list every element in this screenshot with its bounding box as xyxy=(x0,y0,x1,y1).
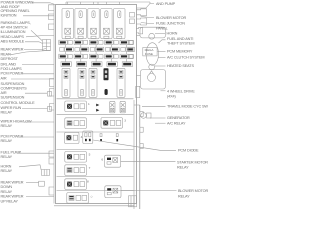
arrow mark 1 xyxy=(96,104,99,107)
fuse B5 xyxy=(126,47,134,51)
relay ac body xyxy=(101,118,123,129)
relay ac pin 1 xyxy=(110,120,115,125)
wire air pump xyxy=(137,4,155,9)
relay wiper-run pin 2 xyxy=(80,104,85,109)
relay starter-motor coil cross xyxy=(113,158,118,163)
svg-text:DRL AND: DRL AND xyxy=(1,63,17,67)
relay K3 body xyxy=(88,9,99,39)
mini relay P1 slot xyxy=(111,108,114,111)
tiny pin a xyxy=(100,134,102,137)
shelf divider 3 xyxy=(57,131,134,133)
maxi fuse MF4 slot 1 xyxy=(105,70,107,73)
shelf divider 5 xyxy=(57,175,134,177)
relay starter-motor dash 2 xyxy=(107,162,111,164)
fuse B6 xyxy=(128,47,133,51)
connector block abs inner lines xyxy=(43,40,51,51)
relay fuel-pump pin 1 xyxy=(74,154,79,159)
relay blower-motor coil xyxy=(113,188,118,193)
svg-text:TRAVEL MODE CYC SW: TRAVEL MODE CYC SW xyxy=(167,105,208,109)
maxi fuse MF3 slot 1 xyxy=(91,70,95,73)
fuse A4 spare xyxy=(114,41,118,45)
right edge tab mid xyxy=(136,86,140,97)
wire ac clutch xyxy=(159,57,166,59)
fuse box outline xyxy=(56,5,137,204)
rail tab 3 xyxy=(140,144,143,149)
bottom right connector xyxy=(129,196,137,207)
svg-text:AND PUMP: AND PUMP xyxy=(156,2,176,6)
wire box to mega xyxy=(137,35,141,37)
relay K4 body xyxy=(101,9,112,39)
relay K4 pill slot xyxy=(105,13,107,16)
relay K1 pill slot xyxy=(67,13,69,16)
relay wiper-hi-lo element stripes xyxy=(67,121,71,124)
wire fuel pump relay xyxy=(17,152,54,154)
relay horn element xyxy=(67,168,72,173)
svg-text:A/C CLUTCH SYSTEM: A/C CLUTCH SYSTEM xyxy=(167,56,204,60)
relay starter-motor dash 1 xyxy=(107,158,111,160)
svg-text:ABS MODULE: ABS MODULE xyxy=(1,40,25,44)
relay wiper-run pin 1 xyxy=(74,104,79,109)
fuse A1 element xyxy=(60,41,66,43)
svg-text:GENERATOR: GENERATOR xyxy=(167,116,190,120)
tiny dot b xyxy=(116,139,118,141)
relay K3 coil cross xyxy=(91,28,97,34)
svg-text:HEAD LAMPS: HEAD LAMPS xyxy=(1,35,25,39)
relay ac element cross xyxy=(103,120,108,125)
fuse box bottom double edge xyxy=(54,205,134,207)
interior tab B xyxy=(130,19,135,24)
relay rear-wiper-down body xyxy=(65,179,87,190)
mini relay P1 body xyxy=(110,101,115,113)
arrow mark 2 xyxy=(96,109,99,112)
mini relay P2 slot xyxy=(121,108,124,111)
fuse C2 xyxy=(74,54,82,58)
connector block abs xyxy=(43,40,51,51)
fuse A5 element xyxy=(121,41,127,43)
fuse C4 spare xyxy=(114,55,118,59)
fuse D2 xyxy=(76,62,86,67)
fuse B5 spare xyxy=(121,48,125,52)
svg-text:PCM POWER: PCM POWER xyxy=(1,72,24,76)
fuse B3 spare xyxy=(90,48,94,52)
wire relay K4 feed xyxy=(105,2,107,5)
wire air suspension components xyxy=(11,78,54,80)
svg-text:PARKING LAMPS,: PARKING LAMPS, xyxy=(1,21,31,25)
fuse B4 xyxy=(111,47,119,51)
relay wiper-hi-lo pin 1 xyxy=(74,121,79,126)
fuse D5 element xyxy=(123,63,131,66)
svg-text:STARTER MOTOR: STARTER MOTOR xyxy=(177,161,208,165)
mini relay P1 cross xyxy=(110,103,114,107)
connector bracket air suspension xyxy=(48,92,52,97)
fuse C5 element xyxy=(121,55,127,57)
relay horn pin 1 xyxy=(74,168,79,173)
fuse A3 xyxy=(89,40,97,44)
connector bracket rear wiper down xyxy=(39,181,45,186)
wire wiper run relay xyxy=(22,108,48,110)
maxi fuse MF2 pill xyxy=(80,89,83,96)
svg-text:REAR WIPER: REAR WIPER xyxy=(1,181,24,185)
relay rear-wiper-up pin 1 xyxy=(76,195,81,200)
relay K5 body xyxy=(114,9,125,39)
fuse D1 element xyxy=(62,63,70,66)
wire rear wiper up relay xyxy=(26,196,54,198)
relay K2 pill terminal xyxy=(79,11,82,18)
relay pcm-power body xyxy=(65,133,80,144)
svg-text:AIR: AIR xyxy=(1,77,7,81)
relay K4 coil cross xyxy=(104,28,110,34)
svg-text:(4X4): (4X4) xyxy=(167,94,177,98)
interior tab A xyxy=(130,13,135,18)
rail inner line xyxy=(133,100,135,209)
wire fuse junction panel xyxy=(141,23,154,24)
shelf divider 1 xyxy=(57,98,134,100)
relay K2 coil box xyxy=(78,28,84,34)
relay starter-motor coil xyxy=(113,158,118,163)
svg-text:ILLUMINATION: ILLUMINATION xyxy=(1,30,26,34)
wire pcm power relay xyxy=(20,136,54,138)
svg-text:AIR: AIR xyxy=(1,91,7,95)
maxi fuse MF2 body xyxy=(78,68,86,97)
relay rear-wiper-down element cross xyxy=(67,182,72,187)
svg-text:FUSE JUNCTION: FUSE JUNCTION xyxy=(156,22,185,26)
wire blower motor relay xyxy=(121,190,177,192)
svg-text:CONTROL MODULE: CONTROL MODULE xyxy=(1,101,36,105)
wire relay K1 feed xyxy=(67,2,69,5)
relay K5 pill slot xyxy=(118,13,120,16)
relay horn body xyxy=(65,165,87,176)
connector bracket wiper run xyxy=(48,107,52,112)
rail cap xyxy=(134,104,140,106)
fuse box left double edge xyxy=(53,5,55,204)
generator terminal xyxy=(141,113,147,119)
relay horn element stripes xyxy=(67,168,71,171)
wire rear defrost xyxy=(10,50,51,55)
relay K2 coil cross xyxy=(78,28,84,34)
connector tab top2 xyxy=(49,14,55,20)
relay blower-motor body xyxy=(105,186,121,198)
fuse A6 xyxy=(128,40,133,44)
fuse C4 element xyxy=(106,55,112,57)
svg-text:IGNITION: IGNITION xyxy=(1,14,17,18)
fuse B1 spare xyxy=(60,48,64,52)
maxi fuse MF2 slot 2 xyxy=(80,75,84,78)
fuse A2 spare xyxy=(83,41,87,45)
svg-text:PANEL: PANEL xyxy=(156,27,168,31)
generator terminal tab xyxy=(147,113,152,118)
relay K1 coil cross xyxy=(65,28,71,34)
fuse B1 element xyxy=(66,48,72,50)
relay K5 pill terminal xyxy=(118,11,121,18)
fuse D3 xyxy=(92,62,102,67)
fuse A5 spare xyxy=(129,41,133,45)
maxi fuse MF1 pill slot xyxy=(65,91,67,94)
relay K5 pin xyxy=(117,36,122,38)
mega fuse body xyxy=(146,43,158,66)
fuse A3 spare xyxy=(99,41,103,45)
relay wiper-run element cross xyxy=(67,104,72,109)
wire rear wiper xyxy=(24,49,46,50)
maxi fuse MF5 pill slot xyxy=(120,91,122,94)
fuse A4 element xyxy=(106,41,112,43)
relay fuel-pump element xyxy=(67,154,72,159)
wire travel mode xyxy=(142,105,166,107)
wire ac relay xyxy=(155,122,166,124)
svg-text:RELAY: RELAY xyxy=(178,195,190,199)
fuse C2 spare xyxy=(83,55,87,59)
4wd stud point xyxy=(149,71,154,75)
wire fuse column 1 xyxy=(65,45,67,62)
relay ac element xyxy=(103,120,108,125)
fuse D5 xyxy=(122,62,132,67)
relay K3 pill terminal xyxy=(92,11,95,18)
fuse C5 spare xyxy=(129,55,133,59)
fuse A1 spare xyxy=(68,41,72,45)
svg-text:PCM DIODE: PCM DIODE xyxy=(178,149,199,153)
fuse A2 xyxy=(74,40,82,44)
connector tab low2 xyxy=(49,158,54,164)
wire illumination xyxy=(31,30,42,40)
rail tab 1 xyxy=(140,112,143,117)
maxi fuse MF2 slot 1 xyxy=(80,70,84,73)
svg-text:THEFT SYSTEM: THEFT SYSTEM xyxy=(167,41,194,45)
svg-text:REAR WIPER: REAR WIPER xyxy=(1,47,24,51)
svg-text:PCM MEMORY: PCM MEMORY xyxy=(167,49,193,53)
wire abs module xyxy=(25,42,43,44)
pcm diode pin 1 xyxy=(85,133,87,137)
relay K5 coil cross xyxy=(116,28,122,34)
relay K2 pill slot xyxy=(80,13,82,16)
fuse C6 xyxy=(128,54,133,58)
maxi fuse MF2 pill slot xyxy=(81,91,83,94)
relay K3 pin xyxy=(91,36,96,38)
wire wiper high/low relay xyxy=(24,121,54,123)
4wd stud xyxy=(148,74,156,82)
fuse B5 element xyxy=(127,48,133,50)
maxi fuse MF3 slot 2 xyxy=(91,75,95,78)
relay ac pin 2 xyxy=(116,120,121,125)
box right tab 2 xyxy=(137,18,147,25)
wire 4wd xyxy=(161,90,166,92)
wire relay K2 feed xyxy=(80,2,82,5)
relay wiper-run element xyxy=(67,104,72,109)
relay wiper-hi-lo body xyxy=(65,118,87,129)
wire heated seats xyxy=(155,65,166,67)
fuse C1 spare xyxy=(68,55,72,59)
svg-text:UP RELAY: UP RELAY xyxy=(1,199,19,203)
connector tab top1 xyxy=(49,5,55,11)
relay K2 pin xyxy=(78,36,83,38)
wire pcm memory xyxy=(158,51,166,53)
fuse C3 spare xyxy=(99,55,103,59)
fuse C2 element xyxy=(75,55,81,57)
relay blower-motor dash 2 xyxy=(107,192,111,194)
relay blower-motor coil cross xyxy=(113,188,118,193)
fuse B3 xyxy=(95,47,103,51)
fuse D2 element xyxy=(77,63,85,66)
relay rear-wiper-up body xyxy=(67,193,89,204)
wire pcm power xyxy=(23,73,54,75)
svg-text:RELAY: RELAY xyxy=(1,155,13,159)
fuse D4 element xyxy=(108,63,116,66)
relay K1 pin xyxy=(65,36,70,38)
maxi fuse MF5 body xyxy=(117,68,125,97)
relay fuel-pump pin 2 xyxy=(80,154,85,159)
relay rear-wiper-down pin 2 xyxy=(80,182,85,187)
connector comb horn xyxy=(41,170,51,176)
svg-text:DEFROST: DEFROST xyxy=(1,57,19,61)
svg-text:FOG LAMPS: FOG LAMPS xyxy=(1,67,23,71)
wire fuse column 5 xyxy=(126,45,128,62)
wire blower motor xyxy=(141,17,154,18)
connector tab top3 xyxy=(49,24,55,30)
shelf divider 6 xyxy=(57,189,134,191)
connector tab mid2 xyxy=(50,89,55,97)
fuse B2 element xyxy=(81,48,87,50)
relay wiper-hi-lo pin 2 xyxy=(80,121,85,126)
svg-text:COMPONENTS: COMPONENTS xyxy=(1,86,28,90)
wire fuse column 2 xyxy=(80,45,82,62)
fuse A2 element xyxy=(75,41,81,43)
relay K1 body xyxy=(62,9,73,39)
relay fuel-pump body xyxy=(65,152,87,163)
wire relay K5 feed xyxy=(118,2,120,5)
relay fuel-pump element cross xyxy=(67,154,72,159)
relay K3 coil box xyxy=(91,28,97,34)
fuse C1 element xyxy=(60,55,66,57)
mini relay P2 body xyxy=(120,101,125,113)
svg-text:SUSPENSION: SUSPENSION xyxy=(1,96,25,100)
mega fuse top stud xyxy=(149,33,155,39)
wire starter motor relay xyxy=(121,160,176,162)
tiny pin b xyxy=(116,134,118,137)
fuse A1 xyxy=(59,40,67,44)
wire pcm diode xyxy=(93,140,176,150)
bottom right connector inner xyxy=(131,196,134,207)
shelf divider 4 xyxy=(57,149,134,151)
svg-text:RELAY: RELAY xyxy=(1,124,13,128)
wire fuse column 3 xyxy=(95,45,97,62)
wire head lamps xyxy=(26,36,54,37)
fuse C3 element xyxy=(90,55,96,57)
svg-text:BLOWER MOTOR: BLOWER MOTOR xyxy=(178,189,209,193)
fuse C5 xyxy=(120,54,128,58)
relay pcm-power pin xyxy=(73,135,77,140)
wire fuel anti theft xyxy=(159,40,166,43)
tiny dot a xyxy=(100,139,102,141)
pcm diode module body xyxy=(83,131,93,143)
maxi fuse MF3 pill xyxy=(91,89,94,96)
box right tab 3 xyxy=(137,27,143,34)
svg-text:REAR WIPER: REAR WIPER xyxy=(1,195,24,199)
svg-text:A/C RELAY: A/C RELAY xyxy=(167,122,186,126)
fuse B2 spare xyxy=(75,48,79,52)
svg-text:WIPER RUN: WIPER RUN xyxy=(1,106,22,110)
svg-text:4P 4X4 SWITCH: 4P 4X4 SWITCH xyxy=(1,26,28,30)
maxi fuse MF4 pill xyxy=(105,89,108,95)
fuse B4 spare xyxy=(106,48,110,52)
fuse B3 element xyxy=(97,48,103,50)
connector tab mid3 xyxy=(50,104,55,111)
maxi fuse MF1 pill xyxy=(64,89,67,96)
fuse D4 xyxy=(107,62,117,67)
wire relay K3 feed xyxy=(93,2,95,5)
connector tab low3 xyxy=(49,187,54,195)
svg-text:HEATED SEATS: HEATED SEATS xyxy=(167,64,194,68)
wire rear wiper down relay xyxy=(26,182,39,184)
connector tab low1 xyxy=(49,151,54,157)
connector tab mid1 xyxy=(50,79,55,87)
fuse A5 xyxy=(120,40,128,44)
relay pcm-power element xyxy=(67,135,72,140)
relay K1 coil box xyxy=(65,28,71,34)
relay rear-wiper-down element xyxy=(67,182,72,187)
box right tab 1 xyxy=(137,9,147,16)
svg-text:OPENING PANEL: OPENING PANEL xyxy=(1,9,30,13)
mega fuse top terminal xyxy=(140,27,166,38)
relay K3 pill slot xyxy=(93,13,95,16)
wire horn relay xyxy=(19,165,41,169)
maxi fuse MF1 slot 1 xyxy=(64,70,68,73)
svg-text:RELAY: RELAY xyxy=(177,166,189,170)
wire ignition xyxy=(23,15,54,17)
rail outer line xyxy=(139,105,141,209)
fuse D1 xyxy=(61,62,71,67)
relay rear-wiper-up pin 2 xyxy=(82,195,87,200)
relay K4 pill terminal xyxy=(105,11,108,18)
4wd terminal housing xyxy=(141,70,166,90)
mega fuse label box xyxy=(143,48,157,56)
relay horn pin 2 xyxy=(80,168,85,173)
relay K4 pin xyxy=(104,36,109,38)
rail tab 2 xyxy=(140,127,143,132)
relay wiper-hi-lo element xyxy=(67,121,72,126)
svg-text:RELAY: RELAY xyxy=(1,139,13,143)
relay rear-wiper-up element stripes xyxy=(69,196,73,199)
fuse D3 element xyxy=(93,63,101,66)
svg-text:FUEL PUMP: FUEL PUMP xyxy=(1,151,22,155)
relay K5 coil box xyxy=(116,28,122,34)
relay pcm-power element cross xyxy=(67,135,72,140)
svg-text:SUSPENSION: SUSPENSION xyxy=(1,82,25,86)
svg-text:HORN: HORN xyxy=(1,164,12,168)
wire drl fog lamps xyxy=(22,64,54,66)
relay K2 body xyxy=(75,9,86,39)
svg-text:BLOWER MOTOR: BLOWER MOTOR xyxy=(156,16,187,20)
svg-text:REAR: REAR xyxy=(1,53,11,57)
relay K1 pill terminal xyxy=(66,11,69,18)
wire air suspension control module xyxy=(25,92,47,94)
maxi fuse MF4 slot 2 xyxy=(105,75,107,78)
maxi fuse MF1 body xyxy=(62,68,70,97)
svg-text:FUEL AND ANTI: FUEL AND ANTI xyxy=(167,37,193,41)
wire power windows xyxy=(32,3,56,5)
relay K4 coil box xyxy=(104,28,110,34)
fuse B4 element xyxy=(112,48,118,50)
wire box to 4wd xyxy=(137,75,141,77)
maxi fuse MF5 slot 1 xyxy=(119,70,123,73)
relay rear-wiper-up element xyxy=(69,195,74,200)
maxi fuse MF5 pill xyxy=(119,89,122,96)
wire generator xyxy=(150,117,166,119)
relay blower-motor dash 1 xyxy=(107,188,111,190)
svg-text:WIPER HIGH/LOW: WIPER HIGH/LOW xyxy=(1,120,33,124)
shelf divider 2 xyxy=(57,114,134,116)
relay wiper-run body xyxy=(65,101,87,112)
fuse C4 xyxy=(105,54,113,58)
svg-text:4 WHEEL DRIVE: 4 WHEEL DRIVE xyxy=(167,89,195,93)
fuse C1 xyxy=(59,54,67,58)
